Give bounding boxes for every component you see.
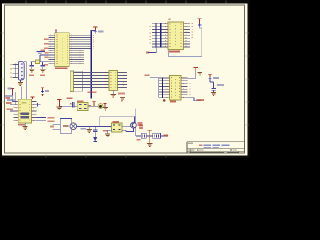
C5 polarity mark [70, 103, 72, 105]
U2 left wire end mark [146, 51, 149, 53]
wire into opto [100, 126, 112, 128]
border ticks left [1, 33, 5, 125]
U5 left label [103, 130, 108, 132]
junction dots after K1 [89, 105, 91, 107]
J1 left pin wires [13, 65, 19, 78]
border ticks top [26, 1, 226, 5]
left border net mark [6, 97, 11, 99]
U2 left bus tap vertical 1 [156, 23, 157, 47]
U2 right return loop wire [169, 28, 202, 57]
ground below C2 [40, 69, 45, 72]
U4 left net wires from border [10, 105, 14, 111]
U1 right pins upper to bus [69, 35, 90, 48]
wire U3 pin to VCC [188, 71, 196, 79]
zener diode D1 [93, 137, 97, 141]
red marks at row start [136, 139, 140, 141]
U1 top stub wire [55, 31, 57, 33]
left border blue net label [7, 88, 11, 90]
wire into U3 from left [150, 78, 159, 98]
component box X2 [153, 133, 161, 138]
U3 left bus tap vertical [162, 78, 163, 99]
capacitor C5 on chain [73, 102, 74, 108]
ground below C1 [29, 69, 34, 72]
DB9 J1 body [19, 62, 25, 81]
U2 left net labels [149, 26, 151, 45]
U3 reference label [170, 101, 176, 103]
ground below C8 [211, 93, 216, 96]
U2 right pins [184, 24, 191, 47]
power symbol on row [148, 130, 152, 143]
title blue text line 1 [204, 144, 230, 146]
AC box inner label [63, 125, 69, 127]
connector J2 body [70, 71, 73, 92]
net label right [213, 77, 219, 79]
K1 inner marks [79, 105, 87, 109]
RP1 inner pin numbers [110, 72, 112, 89]
size row text [188, 149, 195, 150]
U3 body [170, 76, 182, 101]
C8 value label [217, 84, 224, 86]
title red text [199, 145, 203, 147]
U2 right pin numbers [185, 23, 187, 47]
U4 right lower wires [36, 118, 46, 121]
junction cross at U2 VCC [198, 23, 202, 26]
J1 to U4 wire left [21, 87, 23, 100]
LS1 right power tee [103, 103, 106, 107]
capacitor C2 [40, 62, 45, 69]
relay K1 body [77, 103, 88, 111]
J1 ground stub [19, 80, 21, 82]
title text label [188, 143, 193, 144]
RP1 right label [118, 93, 125, 95]
RP1 value label [88, 92, 97, 94]
J2 outline box [70, 71, 82, 91]
wire xtal stub short [37, 50, 46, 52]
J1 pin arrows red [10, 64, 12, 78]
power symbol VCC at bus top [93, 27, 97, 31]
left net label RXD [6, 102, 12, 104]
U2 pin1 mark [168, 19, 170, 20]
U4 right pins [32, 101, 37, 120]
capacitor C1 [29, 62, 34, 69]
U4 right wire with junction [36, 104, 40, 106]
junction cross mid-left [41, 90, 44, 93]
bus vertical line [90, 30, 92, 99]
junction cross right [209, 77, 212, 80]
net label mid-left [45, 90, 49, 92]
Q1 collector wire [133, 117, 135, 123]
chain wire [59, 105, 98, 107]
U2 left pins [152, 24, 168, 47]
AC left wires [53, 124, 61, 129]
U4 left pins [14, 101, 19, 120]
U4 pin numbers right [33, 101, 35, 121]
U4 pin numbers left [15, 101, 17, 121]
U1 right net labels lower [79, 50, 81, 65]
output row wire [136, 135, 168, 137]
net label at drop [137, 122, 142, 126]
rail vertical down to row [135, 117, 137, 136]
ground below row [147, 144, 152, 147]
U3 left pins [159, 78, 170, 98]
sheet border frame line [5, 5, 245, 153]
wire xtal upper [40, 55, 49, 62]
capacitor C8 right [210, 80, 216, 92]
power symbol VCC U3 [194, 67, 198, 71]
bus right pin specks [93, 35, 95, 49]
U2 left bus tap vertical 2 [160, 23, 161, 47]
power symbol U4 left [11, 88, 15, 95]
bridge rectifier BR1 [70, 122, 77, 130]
ground below U4 [23, 127, 28, 130]
optocoupler U5 body [112, 123, 123, 132]
photo black frame [0, 0, 250, 158]
ground below chain left [57, 107, 62, 110]
border ticks right [246, 33, 250, 125]
ground mark near U3 VCC [198, 72, 202, 75]
C1 value label [29, 74, 34, 76]
buzzer LS1 body [98, 104, 103, 109]
U3 right pin numbers [182, 78, 184, 99]
U1 left pins [49, 35, 55, 64]
net label under wire [81, 128, 87, 130]
bus top bend wire [91, 30, 95, 32]
crystal Y1 [35, 60, 39, 64]
wires RP1 right [118, 73, 128, 88]
left border wire steps [5, 89, 16, 105]
LS1 center dot [99, 105, 102, 108]
filter capacitor C6 [93, 127, 97, 137]
U3 bottom right label [197, 99, 205, 101]
K1 label [77, 100, 84, 102]
C2 value label [40, 74, 45, 76]
power symbol second right [208, 74, 212, 78]
junction cross near U4 [36, 103, 40, 106]
U1 left net labels [44, 39, 49, 41]
title block dividers [191, 149, 239, 153]
U1 top stub power dot [55, 29, 57, 30]
wire xtal main [31, 61, 49, 63]
U1 left pin numbers [50, 35, 52, 65]
ground arrow mid-left [41, 94, 43, 96]
U4 ground stub [24, 123, 26, 126]
J1 pin circles [21, 64, 23, 79]
AC left net label [50, 125, 54, 127]
wire opto to transistor [122, 126, 131, 128]
U4 right net labels [48, 117, 55, 119]
Q1 labels [139, 125, 143, 127]
U2 body [168, 22, 184, 50]
U3 left pin numbers [166, 78, 168, 99]
net junction cross at bus top [93, 30, 97, 33]
U4 reference label [18, 124, 26, 126]
U3 bottom right wire [188, 98, 202, 101]
schematic sheet background [2, 4, 248, 156]
power symbol VCC U2 [197, 19, 201, 24]
power symbol U4 right top [30, 97, 34, 99]
net labels right of RP1 [123, 72, 125, 88]
U4 body [18, 99, 31, 123]
ground below RP1 [111, 94, 116, 97]
left net label TXD [7, 108, 14, 110]
U1 right pins lower [69, 51, 84, 64]
top rail wire [100, 116, 136, 118]
U3 input net label [145, 74, 150, 76]
U2 right net labels [191, 23, 193, 40]
title blue text line 2 [204, 146, 220, 148]
U1 right pin numbers [71, 35, 73, 65]
power symbol VCC mid-left [41, 88, 44, 91]
U3 right net labels [189, 83, 191, 95]
RP1 body [109, 71, 118, 91]
row end labels [164, 134, 168, 136]
U2 reference label [169, 51, 180, 53]
stray red mark [121, 100, 123, 102]
U2 left pin numbers [164, 23, 166, 47]
MCU U1 body [55, 33, 70, 67]
wire VCC to loop [200, 27, 202, 28]
J1 left bus vertical [14, 64, 16, 79]
U3 right pins [181, 78, 188, 98]
U2 bottom-left L wire [148, 48, 156, 53]
J2 pin wires to bus [74, 73, 110, 88]
ground right of LS1 [103, 107, 108, 110]
J1 to U4 wire right [24, 62, 26, 99]
file row text [190, 151, 239, 153]
xtal blue mark [38, 52, 41, 54]
VCC net label [98, 31, 104, 33]
Q1 emitter wire [122, 128, 133, 131]
ground below U5 left [105, 134, 110, 137]
transistor Q1 [131, 122, 137, 128]
border ticks bottom [46, 155, 166, 158]
second ground mark right [120, 97, 125, 100]
RP1 ground stub [112, 91, 114, 95]
ground below output wire [87, 130, 92, 133]
xtal net label [40, 50, 45, 52]
power symbol at LS1 [92, 101, 96, 106]
AC input box [60, 119, 72, 134]
ground stub on output wire [88, 127, 90, 130]
title block outline [187, 142, 245, 153]
U5 top labels [112, 121, 119, 123]
U5 lower-left pin wire [108, 130, 112, 133]
rail stub up [135, 109, 137, 117]
rail vertical left [99, 117, 101, 127]
U1 reference label [55, 67, 68, 69]
bridge output wire [77, 126, 100, 128]
U3 bottom-left node dot [163, 99, 166, 102]
pin number specks left [97, 72, 99, 88]
J2 label [67, 98, 73, 100]
ground below J1 [18, 83, 23, 86]
power symbol chain left [57, 100, 61, 107]
component box X1 [141, 133, 146, 138]
